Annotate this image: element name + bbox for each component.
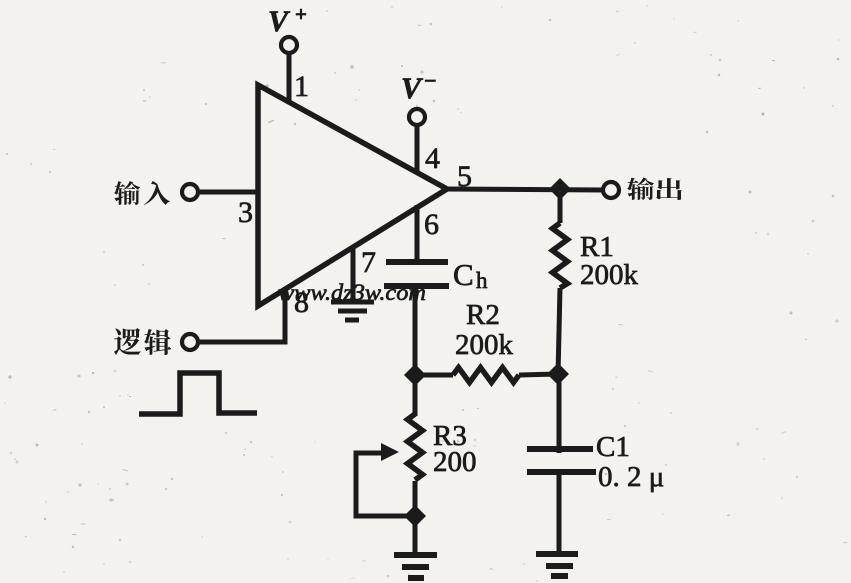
- wire R3 bottom lead: [413, 481, 418, 518]
- capacitor Ch: [384, 262, 449, 286]
- ground pin7: [331, 302, 374, 320]
- wire node B to C1: [557, 374, 562, 453]
- ground R3: [394, 555, 437, 578]
- svg-text:200k: 200k: [455, 329, 514, 361]
- wire output from pin5: [445, 189, 603, 190]
- wire R3 top lead: [413, 375, 418, 416]
- svg-text:6: 6: [424, 208, 439, 241]
- wire pin1 stem: [287, 52, 292, 104]
- wire R2 right lead: [519, 374, 558, 375]
- node junction Ch/R2/R3: [404, 364, 426, 386]
- wire node A to ground: [413, 516, 418, 554]
- op-amp U1 triangle: [258, 85, 447, 306]
- node junction R1/R2/C1: [547, 363, 569, 385]
- svg-text:−: −: [424, 68, 437, 93]
- svg-text:h: h: [476, 268, 488, 293]
- label logic char ji: [144, 329, 171, 355]
- svg-text:V: V: [268, 5, 291, 38]
- wire R3 wiper loop: [356, 453, 413, 516]
- svg-text:C1: C1: [596, 431, 630, 463]
- wire R1 top lead: [558, 189, 563, 223]
- label logic char luo: [114, 328, 141, 355]
- label input char shu: [114, 181, 140, 205]
- terminal V-: [409, 109, 425, 125]
- svg-text:5: 5: [457, 160, 472, 193]
- svg-text:4: 4: [425, 142, 440, 175]
- ground C1: [536, 554, 578, 576]
- svg-text:+: +: [295, 2, 307, 26]
- terminal logic: [182, 334, 198, 350]
- terminal input: [182, 184, 198, 200]
- label output char chu: [656, 178, 682, 200]
- terminal V+: [281, 37, 297, 53]
- wire input to pin3: [197, 190, 260, 195]
- svg-text:R2: R2: [466, 299, 500, 331]
- terminal output: [603, 182, 619, 198]
- resistor R3 zigzag: [408, 414, 423, 480]
- svg-text:200k: 200k: [580, 259, 639, 291]
- svg-text:200: 200: [433, 446, 477, 478]
- svg-text:www.dz3w.com: www.dz3w.com: [278, 280, 426, 305]
- pulse waveform symbol: [139, 373, 257, 414]
- pot arrow R3 wiper: [381, 443, 399, 461]
- capacitor C1: [527, 449, 596, 472]
- wire R1 bottom lead: [558, 288, 560, 375]
- wire C1 to ground: [557, 472, 562, 554]
- label output char shu: [627, 178, 654, 200]
- node junction R3 bottom: [404, 505, 426, 527]
- wire pin6 to Ch: [415, 205, 420, 265]
- wire R2 left lead: [415, 373, 453, 378]
- svg-text:C: C: [453, 257, 474, 292]
- node junction at output: [549, 178, 571, 200]
- label input char ru: [144, 181, 170, 205]
- wire pin4 stem: [415, 124, 420, 174]
- resistor R2 zigzag: [453, 368, 519, 383]
- svg-text:3: 3: [238, 196, 253, 229]
- svg-text:7: 7: [361, 246, 376, 279]
- svg-text:V: V: [401, 72, 424, 105]
- resistor R1 zigzag: [553, 223, 568, 288]
- svg-text:1: 1: [294, 70, 309, 103]
- wire logic to pin8: [198, 289, 285, 342]
- svg-text:0. 2 μ: 0. 2 μ: [598, 461, 664, 493]
- wire Ch to node A: [413, 286, 418, 377]
- wire pin7 to ground: [351, 246, 356, 301]
